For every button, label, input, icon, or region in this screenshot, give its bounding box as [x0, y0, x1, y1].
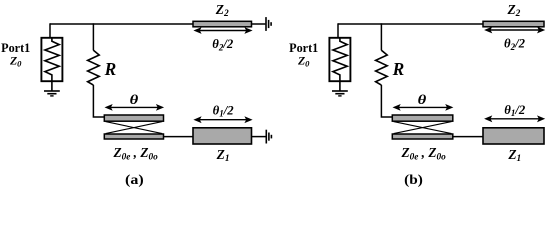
- svg-text:Z2: Z2: [215, 2, 229, 19]
- coupled line upper strip: [392, 115, 453, 121]
- svg-text:θ2​/2: θ2​/2: [212, 36, 233, 52]
- svg-text:(a): (a): [125, 172, 144, 188]
- svg-text:Z0: Z0: [297, 53, 310, 68]
- ground: [51, 81, 53, 90]
- svg-text:Z0e​ , Z0o​: Z0e​ , Z0o​: [400, 145, 446, 162]
- port Port1 source zigzag: [45, 38, 59, 81]
- coupled line cross: [394, 122, 452, 134]
- coupled line lower strip: [104, 134, 163, 139]
- port Port1: [329, 38, 350, 81]
- port Port1: [41, 38, 62, 81]
- svg-text:θ: θ: [418, 92, 427, 107]
- port Port1 source zigzag: [333, 38, 347, 81]
- dimension arrow theta1/2: [490, 118, 540, 120]
- coupled line lower strip: [392, 134, 453, 139]
- svg-text:R: R: [104, 59, 117, 79]
- coupled line upper strip: [104, 115, 163, 121]
- coupled line cross: [106, 122, 163, 134]
- transmission line Z2: [193, 21, 252, 27]
- ground: [265, 17, 267, 31]
- wire: [93, 85, 105, 117]
- dimension arrow theta2/2: [490, 29, 540, 31]
- wire: [381, 85, 393, 117]
- dimension arrow theta: [398, 106, 448, 108]
- svg-text:R: R: [392, 59, 405, 79]
- resistor R: [88, 50, 100, 85]
- svg-text:θ2​/2: θ2​/2: [504, 36, 525, 52]
- wire: [338, 23, 484, 25]
- svg-text:θ1​/2: θ1​/2: [213, 102, 234, 118]
- resistor R: [376, 50, 388, 85]
- wire: [337, 23, 339, 38]
- svg-text:Z0e​ , Z0o​: Z0e​ , Z0o​: [112, 145, 158, 162]
- dimension arrow theta2/2: [199, 30, 247, 32]
- dimension arrow theta: [110, 106, 159, 108]
- svg-text:Z0: Z0: [9, 53, 22, 68]
- wire: [380, 23, 382, 50]
- wire: [252, 136, 266, 138]
- ground: [339, 81, 341, 90]
- transmission line Z2: [483, 21, 544, 27]
- wire: [50, 23, 194, 25]
- wire: [453, 136, 484, 138]
- svg-text:θ1​/2: θ1​/2: [504, 102, 525, 118]
- transmission line Z1: [193, 128, 252, 144]
- transmission line Z1: [483, 128, 544, 144]
- ground: [266, 130, 268, 144]
- svg-text:(b): (b): [404, 172, 423, 188]
- svg-text:Z1: Z1: [507, 147, 521, 164]
- svg-text:θ: θ: [130, 92, 139, 107]
- wire: [49, 23, 51, 38]
- coupled line cross: [394, 122, 452, 134]
- coupled line cross: [106, 122, 163, 134]
- svg-text:Z2: Z2: [506, 2, 520, 19]
- dimension arrow theta1/2: [199, 119, 247, 121]
- wire: [92, 23, 94, 50]
- wire: [252, 23, 266, 25]
- svg-text:Z1: Z1: [216, 147, 230, 164]
- wire: [164, 136, 195, 138]
